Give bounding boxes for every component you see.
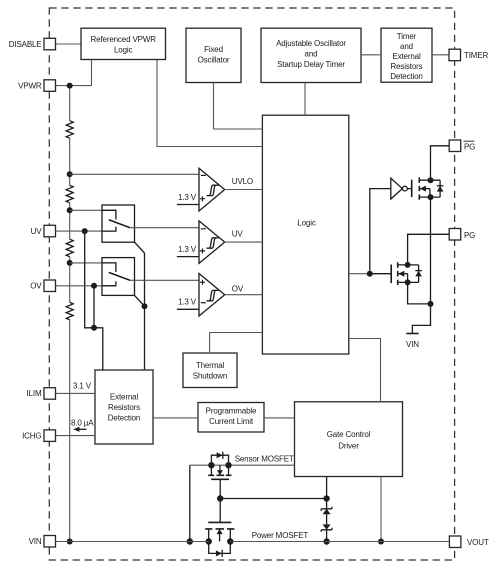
svg-text:Power MOSFET: Power MOSFET [252,531,309,540]
node OV wire dot [91,283,97,289]
wire UVLO tap to comparator U1 [70,173,199,175]
label 1.3 V for U1 [177,193,199,205]
wire Q3 gate down to gate node [219,479,221,498]
switch S1 box [102,205,135,242]
wire switch S2 control diagonal [135,295,145,306]
wire clamp node up to Gate Control Driver [326,477,328,499]
block Adjustable Oscillator and Startup Delay Timer [261,28,361,82]
switch S1 lower contact [102,227,116,231]
wire node A up into Referenced VPWR Logic [91,60,93,86]
wire External Resistors Detection to Programmable Current Limit [153,417,198,419]
pin UV [31,225,56,237]
wire chain bottom to VIN rail [69,320,71,542]
wire R3 to OV tap [69,257,71,303]
svg-text:1.3 V: 1.3 V [178,193,197,202]
op-amp U1 UVLO comparator [199,168,225,211]
wire U1 output to Logic [225,189,263,191]
wire UV tap to switch S1 upper contact [70,209,116,211]
svg-text:External: External [392,52,421,61]
svg-text:ILIM: ILIM [27,389,42,398]
svg-text:Shutdown: Shutdown [193,372,227,381]
wire Thermal Shutdown to Logic [210,333,263,354]
svg-text:UV: UV [31,227,43,236]
resistor R1 [66,121,73,138]
svg-text:Driver: Driver [338,441,359,450]
svg-text:Detection: Detection [108,414,140,423]
wire Referenced VPWR Logic right output down to Logic [157,60,262,147]
svg-text:External: External [110,393,139,402]
node UV tap dot [67,207,73,213]
block External Resistors Detection [95,370,153,444]
pin VIN [29,536,56,548]
svg-text:Resistors: Resistors [391,62,423,71]
wire gate node across to clamp node [220,498,326,500]
node switch control junction dot [142,303,148,309]
svg-text:1.3 V: 1.3 V [178,245,197,254]
switch S1 blade [109,220,130,228]
switch S2 blade [109,272,130,280]
wire ICHG pin to External Resistors Detection [56,435,96,437]
block Fixed Oscillator [186,28,241,82]
pin VOUT [449,536,488,548]
wire switch S1 control diagonal [135,242,145,253]
svg-text:Current Limit: Current Limit [209,417,254,426]
wire bottom junction into External Resistors Detection [94,328,103,370]
wire common source to VIN terminal [412,304,430,334]
wire sense rail from VIN rail up [189,465,191,541]
node clamp bottom dot [323,538,329,544]
wire VPWR pin to node A [56,85,92,87]
wire gate-drive node to Q2 gate [370,273,391,275]
node Q1 source dot [428,194,434,200]
wire Adjustable Oscillator down to Logic top [304,83,306,116]
pin OV [30,280,55,292]
current direction arrow [73,427,86,432]
svg-text:UVLO: UVLO [232,177,253,186]
wire switch control vertical to External Resistors Detection [144,253,146,370]
block Referenced VPWR Logic [81,28,166,59]
switch S2 lower contact [102,281,116,286]
node UV/OV bottom junction dot [91,325,97,331]
wire UV dot down to bottom junction [85,231,94,328]
node GCD-VOUT dot [378,539,384,545]
wire R2 to UV tap [69,203,71,239]
svg-text:and: and [305,50,318,59]
svg-text:UV: UV [232,230,244,239]
svg-text:PG: PG [464,142,475,151]
VIN terminal bar [406,333,418,335]
label 1.3 V for U3 [177,298,199,310]
node UVLO tap dot [67,171,73,177]
wire switch S1 common to comparator U2 [130,227,199,229]
switch S2 box [102,258,135,296]
wire Logic to gate-drive node [349,273,370,275]
svg-text:Detection: Detection [390,72,422,81]
svg-text:VIN: VIN [406,340,419,349]
resistor R3 [66,239,73,256]
svg-text:8.0 µA: 8.0 µA [71,418,94,427]
svg-text:PG: PG [464,231,475,240]
svg-text:TIMER: TIMER [464,51,489,60]
wire R1 to node UVLO tap [69,138,71,185]
wire Q1 source down to common source node [430,197,432,304]
diode D2 zener lower [321,514,332,541]
svg-text:VIN: VIN [29,537,42,546]
switch S2 upper contact [102,263,116,272]
node OV tap dot [67,260,73,266]
wire Fixed Oscillator down to Logic [214,83,263,130]
svg-text:and: and [400,42,413,51]
transistor Q4 Power MOSFET [205,499,234,558]
svg-text:Adjustable Oscillator: Adjustable Oscillator [276,39,346,48]
node Q1 drain dot [428,177,434,183]
svg-text:ICHG: ICHG [22,431,41,440]
op-amp U2 UV comparator [199,221,225,264]
svg-text:VOUT: VOUT [467,538,489,547]
resistor R4 [66,302,73,319]
node clamp node dot [323,495,329,501]
svg-text:Startup Delay Timer: Startup Delay Timer [277,60,345,69]
svg-text:Programmable: Programmable [206,407,257,416]
wire OV tap to switch S2 upper contact [70,262,116,264]
pin DISABLE [9,38,56,50]
svg-text:Referenced VPWR: Referenced VPWR [91,35,157,44]
node UV wire dot [82,228,88,234]
block Gate Control Driver [295,402,403,477]
svg-text:DISABLE: DISABLE [9,40,42,49]
wire Q2 source to common source node [408,282,431,304]
wire DISABLE to Referenced VPWR Logic [56,43,82,45]
wire VOUT rail [230,541,449,543]
block Programmable Current Limit [198,403,264,433]
wire Q2 drain to PG pin [408,234,450,265]
svg-text:3.1 V: 3.1 V [73,382,92,391]
pin PG-bar [449,140,475,152]
wire UV pin to switch S1 lower contact [56,230,116,232]
pin VPWR [18,80,55,92]
svg-text:Logic: Logic [297,219,316,228]
node gate-drive junction dot [367,271,373,277]
wire node up to inverter input [370,189,391,274]
transistor Q1 PG-bar MOSFET [412,177,444,199]
svg-text:Logic: Logic [114,46,133,55]
wire U3 output to Logic [225,294,263,296]
node Q2 drain dot [405,262,411,268]
svg-text:OV: OV [30,282,42,291]
wire switch S2 common to comparator U3 [130,279,199,281]
svg-text:Sensor MOSFET: Sensor MOSFET [235,454,294,463]
node A junction dot on VPWR [67,83,73,89]
wire sensor MOSFET row to Gate Control Driver [190,464,295,466]
wire Logic to Gate Control Driver [349,339,381,402]
svg-text:Resistors: Resistors [108,403,140,412]
wire chain top segment [69,89,71,121]
pin ILIM [27,388,56,400]
wire OV dot down to bottom junction [93,286,95,328]
wire VIN rail [56,541,209,543]
node common source junction dot [428,301,434,307]
transistor Q2 PG MOSFET [391,262,422,285]
wire Programmable Current Limit to Gate Control Driver [264,417,295,419]
diode D1 zener upper [321,499,332,515]
block Logic [262,115,348,354]
label 1.3 V for U2 [177,245,199,257]
svg-text:OV: OV [232,285,244,294]
svg-text:Thermal: Thermal [196,361,225,370]
resistor R2 [66,185,73,202]
node chain-VIN junction dot [67,539,73,545]
node gate node dot left [217,495,223,501]
pin PG [449,229,475,241]
wire Gate Control Driver bottom to VOUT rail [380,477,382,542]
switch S1 upper contact [102,210,116,219]
wire U2 output to Logic [225,241,263,243]
svg-text:Timer: Timer [397,32,417,41]
wire Timer block to TIMER pin [432,54,449,56]
pin ICHG [22,430,55,442]
IC boundary dashed border [49,8,454,560]
svg-text:Fixed: Fixed [204,45,223,54]
svg-text:1.3 V: 1.3 V [178,298,197,307]
node Q2 source dot [405,279,411,285]
svg-text:VPWR: VPWR [18,81,42,90]
block Thermal Shutdown [183,353,237,388]
wire Adjustable Oscillator to Timer block [361,54,381,56]
node sense rail VIN dot [187,538,193,544]
transistor Q3 Sensor MOSFET [208,452,232,480]
pin TIMER [449,49,489,61]
wire Q1 drain to PG-bar pin [431,146,450,180]
op-amp U3 OV comparator [199,274,225,317]
svg-text:Oscillator: Oscillator [198,56,230,65]
wire OV pin to switch S2 lower contact [56,285,116,287]
inverter U4 [391,178,412,199]
block Timer and External Resistors Detection [381,28,432,82]
svg-text:Gate Control: Gate Control [327,430,371,439]
wire ILIM pin to External Resistors Detection [56,392,96,394]
